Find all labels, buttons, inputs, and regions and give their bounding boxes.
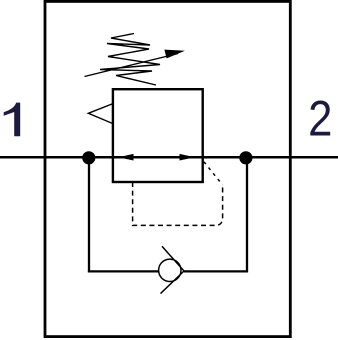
relief vent triangle [88, 104, 113, 124]
svg-text:2: 2 [308, 91, 332, 146]
node: junction dot left [82, 151, 95, 164]
regulator body U1 (valve square) [113, 89, 203, 182]
check valve V1: ball circle [159, 259, 181, 281]
adjustment arrow shaft [85, 54, 179, 77]
port label 1 [4, 103, 21, 137]
enclosure (component boundary) [45, 1, 290, 336]
pilot line (dashed): diagonal to valve [204, 162, 223, 185]
adjustment arrowhead [164, 50, 185, 59]
wire: bypass bottom right segment [184, 270, 248, 272]
wire: main flow line 1-2 [0, 156, 338, 159]
flow arrow left [118, 154, 134, 161]
wire: bypass right vertical [246, 158, 248, 272]
wire: bypass left vertical [88, 158, 90, 272]
wire: bypass bottom left segment [88, 270, 159, 272]
flow arrow right [180, 154, 195, 161]
check valve V1: seat [161, 246, 185, 293]
pilot line (dashed): down from valve bottom, along bottom, up right side [133, 182, 223, 225]
spring (zigzag) [100, 34, 160, 86]
node: junction dot right [239, 151, 252, 164]
